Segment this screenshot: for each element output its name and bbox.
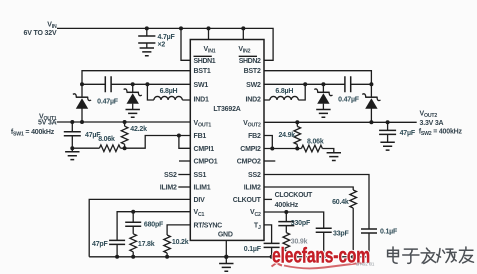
wire RT/SYNC: [167, 225, 190, 235]
svg-text:6.8µH: 6.8µH: [275, 88, 293, 95]
ground input cap: [140, 48, 154, 56]
ground D3: [316, 110, 330, 118]
diode D2 catch schottky: [124, 82, 142, 109]
resistor R-FB2B 8.06k: [301, 139, 333, 153]
node ILIM2 label left: [160, 184, 190, 191]
resistor R-FB1B 8.06k: [72, 136, 124, 152]
svg-text:10.2k: 10.2k: [172, 239, 189, 246]
wire CMPO1 stub: [179, 160, 190, 162]
svg-text:TJ: TJ: [254, 222, 261, 231]
wire DIV to ground rail: [89, 199, 190, 256]
wire VOUT1: [57, 121, 191, 123]
svg-text:3.3V 3A: 3.3V 3A: [420, 120, 444, 127]
ground C-OUT1: [65, 152, 79, 160]
svg-text:RT/SYNC: RT/SYNC: [194, 222, 223, 229]
wire ground rail: [89, 256, 369, 258]
node VOUT1 label: [11, 113, 57, 137]
svg-text:SW1: SW1: [194, 82, 209, 89]
svg-text:VC2: VC2: [250, 209, 261, 218]
capacitor 0.1uF soft-start: [361, 229, 398, 257]
svg-text:VC1: VC1: [194, 209, 205, 218]
capacitor C-BST1 0.47uF: [82, 76, 133, 105]
svg-text:17.8k: 17.8k: [138, 241, 155, 248]
node dot BST2/D4: [369, 82, 373, 86]
svg-text:33pF: 33pF: [333, 231, 349, 238]
svg-text:330pF: 330pF: [291, 220, 311, 227]
node VIN label: [24, 22, 58, 38]
node dot VIN2: [241, 26, 245, 30]
wire SHDN1 drop: [181, 28, 190, 60]
svg-text:VIN1: VIN1: [204, 46, 216, 55]
svg-text:fSW2 = 400kHz: fSW2 = 400kHz: [419, 129, 463, 138]
resistor 10.2k: [164, 235, 189, 259]
diode D4 boost schottky: [362, 84, 380, 122]
wire TJ: [264, 225, 272, 244]
svg-text:SS2: SS2: [164, 172, 177, 179]
resistor R-FB2A 24.9k: [278, 120, 300, 150]
svg-text:60.4k: 60.4k: [332, 199, 349, 206]
svg-text:dn492 f01: dn492 f01: [356, 262, 375, 267]
node dot VC2: [284, 210, 288, 214]
diode D1 boost schottky: [73, 84, 91, 122]
svg-text:GND: GND: [218, 232, 233, 239]
svg-text:VOUT1: VOUT1: [194, 120, 212, 129]
inductor L1 6.8uH: [145, 82, 190, 100]
svg-text:5V 3A: 5V 3A: [38, 120, 57, 127]
svg-text:47µF: 47µF: [400, 130, 416, 137]
node dot GND rail: [224, 255, 228, 259]
svg-text:47pF: 47pF: [92, 241, 108, 248]
svg-text:IND1: IND1: [194, 96, 209, 103]
node dot CMPI1 left: [70, 146, 74, 150]
svg-text:42.2k: 42.2k: [130, 126, 147, 133]
svg-text:SS1: SS1: [194, 172, 207, 179]
wire SW1: [133, 83, 191, 85]
svg-text:DIV: DIV: [194, 197, 206, 204]
svg-text:400kHz: 400kHz: [275, 202, 299, 209]
node dot VOUT2/D4: [369, 120, 373, 124]
svg-text:FB2: FB2: [248, 133, 261, 140]
ground D2: [126, 110, 140, 118]
wire GND pin: [225, 240, 227, 263]
ground main: [219, 264, 233, 272]
resistor 30.9k comp2: [283, 226, 308, 259]
svg-text:CLOCKOUT: CLOCKOUT: [275, 192, 313, 199]
svg-text:SHDN2: SHDN2: [239, 58, 261, 65]
node dot FB2/CMPI2: [270, 147, 274, 151]
capacitor 330pF: [278, 212, 311, 227]
wire VOUT2: [264, 121, 417, 123]
svg-text:CMPI1: CMPI1: [194, 146, 215, 153]
IC U1 LT3692A: [190, 40, 264, 241]
svg-text:BST2: BST2: [244, 68, 261, 75]
svg-text:0.47µF: 0.47µF: [338, 96, 360, 103]
watermark chinese 电子发烧友: [388, 247, 474, 263]
wire FB1/CMPI1 jog: [125, 136, 191, 149]
svg-text:8.06k: 8.06k: [98, 136, 115, 143]
svg-text:CMPO1: CMPO1: [194, 159, 218, 166]
node SS2 label left: [164, 172, 190, 179]
svg-text:ILIM2: ILIM2: [160, 184, 177, 191]
capacitor 47pF: [92, 240, 125, 258]
wire VIN1 pin: [208, 28, 210, 39]
svg-text:6V TO 32V: 6V TO 32V: [24, 30, 58, 37]
svg-text:LT3692A: LT3692A: [213, 106, 240, 113]
svg-text:CMPI2: CMPI2: [240, 146, 261, 153]
svg-text:SS2: SS2: [248, 172, 261, 179]
svg-text:VOUT2: VOUT2: [243, 120, 261, 129]
svg-text:6.8µH: 6.8µH: [160, 88, 178, 95]
capacitor C-OUT1 47uF: [64, 120, 101, 152]
wire FB2: [264, 136, 272, 149]
svg-text:CMPO2: CMPO2: [237, 159, 261, 166]
wire ILIM2: [264, 187, 353, 190]
svg-text:24.9k: 24.9k: [278, 132, 295, 139]
diode D3 catch schottky: [314, 82, 332, 109]
node dot BST1/D1: [80, 82, 84, 86]
wire VIN2 pin: [242, 28, 244, 39]
char shao: [437, 249, 456, 263]
char fa: [421, 248, 436, 263]
wire VIN top rail: [57, 28, 273, 60]
node dot SHDN1 rail: [179, 26, 183, 30]
svg-text:fSW1 = 400kHz: fSW1 = 400kHz: [11, 129, 55, 138]
node dot VOUT1/D1: [80, 120, 84, 124]
svg-text:SHDN1: SHDN1: [194, 58, 216, 65]
wire VC2: [264, 212, 324, 228]
capacitor C-BST2 0.47uF: [323, 76, 371, 103]
svg-text:CLKOUT: CLKOUT: [233, 197, 262, 204]
ground R-FB2B: [327, 153, 341, 161]
node dot VIN1: [207, 26, 211, 30]
char you: [459, 247, 473, 263]
svg-text:IND2: IND2: [246, 96, 261, 103]
svg-text:0.1µF: 0.1µF: [244, 246, 262, 253]
svg-text:ILIM2: ILIM2: [244, 184, 261, 191]
wire CMPI2: [264, 148, 301, 150]
capacitor 4.7uF input: [138, 26, 175, 48]
char zi: [403, 249, 419, 263]
svg-text:680pF: 680pF: [144, 221, 164, 228]
svg-text:VIN2: VIN2: [238, 46, 250, 55]
svg-text:0.1µF: 0.1µF: [380, 229, 398, 236]
node CLOCKOUT label: [275, 192, 313, 209]
svg-text:VIN: VIN: [47, 22, 57, 31]
svg-text:4.7µF: 4.7µF: [158, 34, 176, 41]
wire VC1: [117, 212, 190, 241]
watermark red flourish: [272, 258, 285, 267]
resistor R-FB1A 42.2k: [121, 120, 147, 150]
svg-text:8.06k: 8.06k: [307, 139, 324, 146]
wire SS2: [264, 175, 369, 230]
svg-text:ILIM1: ILIM1: [194, 184, 211, 191]
node dot VC1: [131, 210, 135, 214]
wire BST2: [264, 71, 371, 85]
svg-text:BST1: BST1: [194, 68, 211, 75]
inductor L2 6.8uH: [264, 82, 307, 100]
resistor 60.4k: [332, 190, 356, 259]
node VOUT2 label: [419, 111, 463, 138]
resistor 17.8k: [130, 226, 155, 258]
svg-text:SW2: SW2: [246, 82, 261, 89]
capacitor 33pF: [316, 228, 350, 259]
node dot FB1: [177, 134, 181, 138]
svg-text:0.47µF: 0.47µF: [97, 98, 119, 105]
wire CMPO2 stub: [264, 160, 275, 162]
char dian: [388, 247, 399, 263]
svg-text:×2: ×2: [158, 41, 166, 48]
ground C-OUT2: [380, 142, 394, 150]
capacitor 680pF: [125, 212, 164, 229]
svg-text:FB1: FB1: [194, 133, 207, 140]
wire CLKOUT stub: [264, 198, 272, 200]
svg-text:VOUT2: VOUT2: [420, 111, 438, 120]
wire SW2: [264, 83, 323, 85]
wire BST1: [82, 71, 190, 85]
capacitor C-OUT2 47uF: [379, 120, 416, 142]
capacitor 0.1uF TJ: [244, 243, 280, 258]
